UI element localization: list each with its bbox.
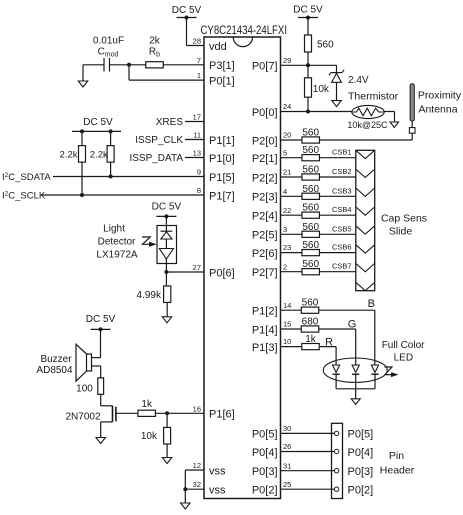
svg-text:17: 17 (193, 113, 201, 122)
svg-text:P1[7]: P1[7] (209, 190, 235, 202)
capacitor Cmod 0.01uF (103, 58, 105, 72)
svg-text:4.99k: 4.99k (137, 290, 162, 301)
pin 17 XRES (185, 121, 204, 123)
svg-text:Buzzer: Buzzer (40, 354, 72, 365)
svg-text:30: 30 (283, 424, 291, 433)
resistor 2.2k (SCLK pullup) (79, 146, 86, 163)
svg-text:560: 560 (302, 298, 319, 309)
LED element (333, 365, 340, 372)
pin 30 P0[5] to header (281, 432, 335, 434)
wire 4.99k to ground (166, 303, 168, 317)
svg-text:CY8C21434-24LFXI: CY8C21434-24LFXI (201, 25, 288, 37)
svg-text:Full Color: Full Color (382, 340, 425, 351)
light arrow into detector (142, 237, 150, 244)
svg-text:23: 23 (283, 243, 291, 252)
ground (2N7002 source) (96, 438, 106, 444)
svg-text:560: 560 (302, 259, 319, 270)
pin 11 P1[1] (185, 139, 204, 141)
resistor 10k pulldown (166, 413, 168, 427)
svg-text:Header: Header (380, 465, 415, 477)
proximity antenna E1 (410, 84, 414, 121)
svg-text:29: 29 (283, 56, 291, 65)
cap sense slide CSB1-7 (356, 150, 375, 290)
wire R (320, 346, 336, 348)
svg-text:24: 24 (283, 102, 291, 111)
ground (10k) (162, 458, 172, 464)
svg-text:ISSP_DATA: ISSP_DATA (129, 153, 183, 164)
light detector U2 LX1972A (157, 226, 177, 264)
wire cap to ground (83, 64, 104, 66)
svg-text:2.2k: 2.2k (60, 150, 78, 161)
svg-text:P0[4]: P0[4] (252, 447, 278, 459)
ground (Cmod) (78, 81, 88, 87)
pin 10 P1[3] (red) (281, 346, 302, 348)
pin 13 P1[0] (185, 157, 204, 159)
svg-text:LED: LED (394, 353, 413, 364)
svg-text:8: 8 (197, 186, 201, 195)
ground (zener) (332, 101, 342, 107)
svg-text:5: 5 (283, 148, 287, 157)
wire to zener (308, 64, 337, 66)
pin 32 vss (185, 488, 204, 490)
svg-text:P1[6]: P1[6] (209, 409, 235, 421)
svg-text:DC 5V: DC 5V (152, 202, 182, 213)
svg-text:B: B (368, 298, 375, 310)
svg-text:DC 5V: DC 5V (172, 5, 202, 16)
IC notch (233, 37, 252, 47)
svg-text:560: 560 (302, 240, 319, 251)
svg-text:Pin: Pin (389, 450, 404, 462)
svg-text:P0[5]: P0[5] (252, 429, 278, 441)
svg-text:1k: 1k (305, 334, 317, 345)
pin 15 P1[4] (green) (281, 328, 302, 330)
wire LED cathode bar (336, 388, 375, 390)
pin header J1 body (332, 423, 343, 498)
svg-text:P2[0]: P2[0] (252, 135, 278, 147)
svg-text:Light: Light (103, 224, 125, 235)
svg-text:P3[1]: P3[1] (209, 60, 235, 72)
svg-text:28: 28 (193, 37, 201, 46)
node A junction (127, 63, 131, 67)
pin 1 P0[1] (129, 79, 204, 81)
svg-text:P2[3]: P2[3] (252, 192, 278, 204)
svg-text:Cap Sens: Cap Sens (381, 212, 427, 224)
svg-text:P0[6]: P0[6] (209, 267, 235, 279)
pin 5 P2[1] to CSB1 (281, 157, 356, 159)
svg-text:560: 560 (302, 128, 319, 139)
svg-text:AD8504: AD8504 (36, 365, 73, 376)
svg-text:2k: 2k (149, 36, 161, 47)
svg-text:10k@25C: 10k@25C (347, 120, 388, 130)
svg-text:13: 13 (193, 149, 201, 158)
transistor Q1 2N7002 (100, 394, 102, 405)
svg-text:Cmod: Cmod (98, 47, 119, 59)
resistor Rb 2k (146, 62, 164, 68)
svg-text:P0[3]: P0[3] (252, 466, 278, 478)
svg-text:32: 32 (193, 480, 201, 489)
svg-text:10k: 10k (141, 431, 158, 442)
svg-text:DC 5V: DC 5V (293, 5, 323, 16)
wire 10k to ground (166, 444, 168, 458)
svg-text:P0[0]: P0[0] (252, 107, 278, 119)
wire node A to P0[1] (128, 65, 130, 80)
svg-text:CSB3: CSB3 (332, 186, 352, 195)
svg-text:16: 16 (193, 404, 201, 413)
svg-text:560: 560 (302, 145, 319, 156)
node gate junction (165, 411, 169, 415)
svg-text:P0[1]: P0[1] (209, 75, 235, 87)
pin 4 P2[3] to CSB3 (281, 195, 356, 197)
wire pullup left (81, 131, 83, 195)
svg-text:7: 7 (197, 56, 201, 65)
wire buzzer top terminal (100, 329, 102, 357)
resistor 10k (divider) (307, 65, 309, 78)
pin 16 P1[6] (156, 412, 205, 414)
svg-text:560: 560 (302, 222, 319, 233)
svg-text:12: 12 (193, 461, 201, 470)
svg-text:Detector: Detector (98, 237, 136, 248)
node bias top (307, 52, 309, 65)
resistor 1k (gate) (138, 410, 156, 416)
svg-text:P1[2]: P1[2] (252, 306, 278, 318)
svg-text:1: 1 (197, 71, 201, 80)
wire supply to detector (165, 216, 167, 225)
svg-text:I2C_SCLK: I2C_SCLK (2, 191, 46, 202)
svg-text:25: 25 (283, 480, 291, 489)
svg-text:0.01uF: 0.01uF (93, 36, 124, 47)
resistor 680 (green) (301, 326, 319, 332)
svg-text:22: 22 (283, 206, 291, 215)
wire G (319, 328, 356, 330)
svg-text:P1[5]: P1[5] (209, 172, 235, 184)
pin 29 P0[7] (281, 64, 309, 66)
svg-text:P2[1]: P2[1] (252, 153, 278, 165)
svg-text:P1[4]: P1[4] (252, 324, 278, 336)
pin 22 P2[4] to CSB4 (281, 214, 356, 216)
pin 31 P0[3] to header (281, 470, 335, 472)
pin 26 P0[4] to header (281, 451, 335, 453)
svg-text:P2[4]: P2[4] (252, 211, 278, 223)
svg-text:14: 14 (283, 301, 291, 310)
svg-text:P0[2]: P0[2] (348, 485, 374, 497)
resistor 560 (blue) (301, 307, 319, 313)
svg-text:3: 3 (283, 225, 287, 234)
pin 7 P3[1] (129, 64, 204, 66)
ground (LED) (351, 399, 360, 405)
svg-text:P0[7]: P0[7] (252, 61, 278, 73)
pin 25 P0[2] to header (281, 488, 335, 490)
resistor 560 (bias) (307, 18, 309, 36)
LED element (371, 365, 378, 372)
wire detector to P0[6] (165, 264, 167, 273)
svg-text:560: 560 (317, 40, 334, 51)
resistor 100 (98, 378, 104, 395)
svg-text:27: 27 (193, 263, 201, 272)
svg-text:XRES: XRES (156, 117, 184, 128)
pin 20 P2[0] (281, 139, 303, 141)
svg-text:2.4V: 2.4V (348, 75, 369, 86)
ground (4.99k) (162, 317, 172, 323)
svg-text:4: 4 (283, 187, 287, 196)
ground (vss) (181, 503, 191, 509)
svg-text:21: 21 (283, 168, 291, 177)
pin 8 P1[7] / net I2C_SCLK (41, 194, 204, 196)
wire square to antenna (411, 121, 413, 128)
svg-text:20: 20 (283, 131, 291, 140)
resistor 4.99k (165, 272, 167, 286)
pin 12 vss (185, 469, 204, 471)
svg-text:Slide: Slide (389, 225, 413, 237)
svg-text:2.2k: 2.2k (90, 150, 108, 161)
wire pullup right (110, 131, 112, 176)
svg-text:LX1972A: LX1972A (96, 250, 137, 261)
svg-text:P2[7]: P2[7] (252, 267, 278, 279)
pin 28 vdd (187, 45, 205, 47)
svg-text:26: 26 (283, 442, 291, 451)
svg-text:P1[1]: P1[1] (209, 135, 235, 147)
IC U1 CY8C21434-24LFXI body (204, 37, 281, 499)
zener diode D1 2.4V (331, 72, 342, 74)
svg-text:9: 9 (197, 168, 201, 177)
pin 27 P0[6] (166, 271, 204, 273)
svg-text:100: 100 (76, 383, 93, 394)
wire vdd supply (186, 18, 188, 46)
svg-text:Antenna: Antenna (418, 104, 457, 116)
svg-text:31: 31 (283, 461, 291, 470)
svg-text:CSB5: CSB5 (332, 224, 352, 233)
svg-text:P2[6]: P2[6] (252, 248, 278, 260)
ground (thermistor) (390, 122, 399, 128)
wire vss common (184, 470, 186, 503)
svg-text:CSB2: CSB2 (332, 167, 352, 176)
svg-text:560: 560 (302, 165, 319, 176)
svg-text:P2[5]: P2[5] (252, 230, 278, 242)
pin 23 P2[6] to CSB6 (281, 252, 356, 254)
wire P2[0] to antenna (320, 139, 413, 141)
svg-text:CSB1: CSB1 (332, 148, 352, 157)
svg-text:10: 10 (283, 337, 291, 346)
svg-text:10k: 10k (313, 84, 330, 95)
svg-text:vdd: vdd (209, 41, 227, 53)
svg-text:Rb: Rb (149, 47, 160, 59)
light arrow out of LED (385, 367, 393, 375)
svg-text:P1[3]: P1[3] (252, 342, 278, 354)
pin 2 P2[7] to CSB7 (281, 271, 356, 273)
wire to ground (355, 389, 357, 399)
svg-text:560: 560 (302, 203, 319, 214)
svg-text:Thermistor: Thermistor (348, 91, 399, 103)
svg-text:P1[0]: P1[0] (209, 153, 235, 165)
svg-text:680: 680 (302, 317, 319, 328)
resistor 2.2k (SDATA pullup) (107, 146, 114, 163)
full color LED D2 (323, 358, 387, 382)
wire buzzer bottom terminal (92, 365, 101, 367)
svg-text:2: 2 (283, 262, 287, 271)
buzzer LS1 AD8504 speaker (87, 354, 92, 371)
svg-text:11: 11 (193, 131, 201, 140)
svg-text:CSB6: CSB6 (332, 243, 352, 252)
svg-text:vss: vss (209, 465, 226, 477)
resistor 560 (P2[0]) (302, 137, 320, 143)
antenna feed square (409, 128, 415, 134)
pin 24 P0[0] (281, 111, 309, 113)
svg-text:2N7002: 2N7002 (65, 411, 100, 422)
gate wire (116, 412, 138, 414)
pin 14 P1[2] (blue) (281, 309, 302, 311)
wire thermistor to ground (384, 111, 395, 113)
wire B (319, 309, 375, 311)
svg-text:DC 5V: DC 5V (83, 117, 113, 128)
svg-text:15: 15 (283, 320, 291, 329)
svg-text:ISSP_CLK: ISSP_CLK (135, 135, 183, 146)
svg-text:560: 560 (302, 184, 319, 195)
svg-text:DC 5V: DC 5V (86, 314, 116, 325)
thermistor RT1 (308, 111, 352, 113)
svg-text:P0[2]: P0[2] (252, 485, 278, 497)
svg-text:P0[3]: P0[3] (348, 466, 374, 478)
LED element (352, 365, 359, 372)
svg-text:P0[5]: P0[5] (348, 429, 374, 441)
svg-text:vss: vss (209, 485, 226, 497)
svg-text:1k: 1k (141, 399, 153, 410)
svg-text:P2[2]: P2[2] (252, 172, 278, 184)
svg-text:I2C_SDATA: I2C_SDATA (2, 172, 51, 183)
pin 21 P2[2] to CSB2 (281, 176, 356, 178)
pin 9 P1[5] / net I2C_SDATA (53, 176, 204, 178)
svg-text:Proximity: Proximity (418, 89, 462, 101)
svg-text:P0[4]: P0[4] (348, 447, 374, 459)
pin 3 P2[5] to CSB5 (281, 233, 356, 235)
svg-text:CSB4: CSB4 (332, 205, 352, 214)
svg-text:CSB7: CSB7 (332, 262, 352, 271)
resistor 1k (red) (302, 344, 320, 350)
